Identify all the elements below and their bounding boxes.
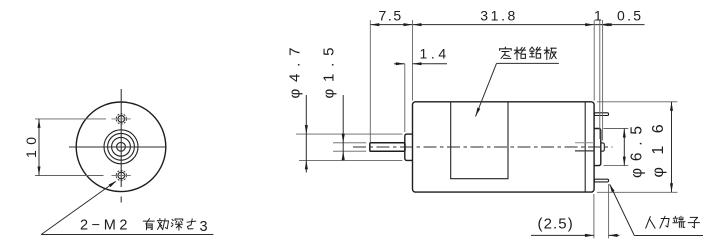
top dimension line bbox=[370, 24, 644, 26]
label teikaku meiban (rating nameplate, kanji) bbox=[500, 47, 512, 58]
svg-text:0.5: 0.5 bbox=[617, 8, 643, 24]
dimension phi1.5 line and arrows bbox=[342, 95, 345, 160]
dimension phi4.7 line and arrows bbox=[305, 95, 308, 173]
dimension 2.5 extension lines bbox=[594, 184, 609, 238]
front view concentric boss circles bbox=[104, 130, 138, 164]
top dimension arrowheads bbox=[370, 23, 611, 26]
svg-text:φ6.5: φ6.5 bbox=[629, 119, 646, 178]
dimension 2.5 line and arrows bbox=[531, 234, 620, 237]
svg-text:1: 1 bbox=[594, 8, 602, 24]
svg-text:1.4: 1.4 bbox=[420, 46, 450, 62]
dimension phi4.7 extension lines bbox=[296, 134, 402, 160]
motor body outline bbox=[413, 102, 595, 192]
vertical center line bbox=[120, 89, 122, 203]
svg-text:7.5: 7.5 bbox=[379, 8, 403, 24]
rating nameplate rectangle on body bbox=[451, 102, 508, 179]
rear shaft stub bbox=[601, 143, 605, 151]
input terminal leader line bbox=[609, 184, 703, 236]
label nyuryoku tanshi (input terminal, kanji) bbox=[646, 217, 655, 229]
svg-text:3: 3 bbox=[200, 219, 208, 235]
dimension 1.4 extension line bbox=[404, 64, 406, 132]
dimension phi6.5 line and arrows bbox=[623, 129, 626, 166]
dimension 10 extension lines bbox=[35, 119, 106, 176]
bottom M2 hole bbox=[112, 170, 131, 180]
front view outer circle (motor face) bbox=[76, 102, 166, 192]
svg-text:(2.5): (2.5) bbox=[538, 215, 574, 232]
svg-text:10: 10 bbox=[23, 131, 39, 158]
dimension 1.4 line and arrows bbox=[394, 62, 447, 65]
upper input terminal bbox=[594, 113, 608, 116]
front shaft (phi 1.5) bbox=[370, 143, 405, 152]
top dimension extension lines bbox=[370, 20, 602, 143]
rear bearing boss (phi 6.5) bbox=[594, 129, 601, 166]
nameplate leader line bbox=[476, 63, 559, 116]
dimension phi1.5 extension lines bbox=[333, 143, 366, 151]
label yuko fukasa 3 (effective depth 3, kanji) bbox=[143, 219, 154, 230]
lower input terminal bbox=[594, 179, 608, 182]
front bearing boss (phi 4.7) bbox=[405, 134, 413, 160]
svg-text:31.8: 31.8 bbox=[480, 8, 518, 24]
horizontal center line bbox=[69, 146, 166, 148]
dimension 10 line with arrows bbox=[38, 119, 41, 176]
dimension phi16 line and arrows bbox=[670, 102, 673, 193]
dimension phi16 extension lines bbox=[597, 102, 678, 193]
svg-text:φ4.7: φ4.7 bbox=[287, 41, 304, 99]
dimension phi6.5 extension lines bbox=[604, 129, 629, 166]
shaft center line (dash-dot) bbox=[353, 146, 613, 148]
svg-text:φ1.5: φ1.5 bbox=[321, 41, 338, 99]
top M2 hole bbox=[112, 114, 131, 124]
svg-text:2−M2: 2−M2 bbox=[80, 218, 131, 234]
svg-text:φ16: φ16 bbox=[650, 112, 667, 178]
leader line for M2 holes bbox=[41, 181, 213, 235]
end-bell seam line bbox=[584, 102, 586, 192]
shaft hidden lines through end bell bbox=[575, 143, 594, 151]
